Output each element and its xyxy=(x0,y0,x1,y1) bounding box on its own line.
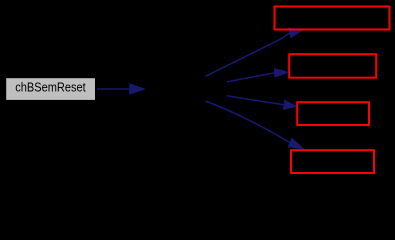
arrowhead edge 1 xyxy=(289,28,303,37)
callee box 1 (red outlined node) xyxy=(275,7,390,30)
arrowhead edge 3 xyxy=(283,100,296,109)
wire edge middle -> callee box 1 xyxy=(205,28,303,76)
wire edge middle -> callee box 3 xyxy=(227,96,297,109)
arrowhead edge 4 xyxy=(288,138,303,148)
arrowhead edge 2 xyxy=(275,69,289,77)
wire edge middle -> callee box 2 xyxy=(227,69,288,82)
arrowhead edge 0 xyxy=(130,84,144,94)
callee box 3 (red outlined node) xyxy=(297,102,369,125)
callee box 4 (red outlined node) xyxy=(291,150,374,173)
wire edge middle -> callee box 4 xyxy=(205,101,303,149)
node chBSemReset (current function, grey box) xyxy=(6,78,95,100)
svg-text:chBSemReset: chBSemReset xyxy=(15,81,86,95)
wire edge chBSemReset -> middle node xyxy=(97,84,144,94)
callee box 2 (red outlined node) xyxy=(289,54,376,77)
